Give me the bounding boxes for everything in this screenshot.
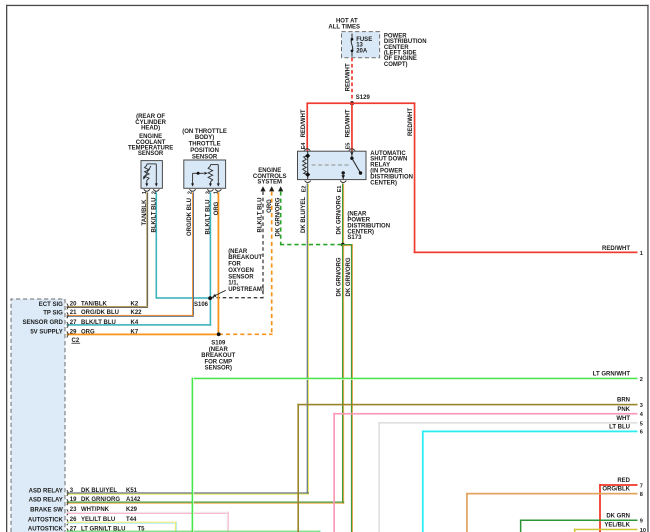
wire LT GRN/WHT to right edge (2): [192, 372, 643, 532]
PCM connector C2 label: [72, 338, 81, 344]
svg-text:BLK/LT BLU: BLK/LT BLU: [257, 198, 263, 233]
svg-text:TP SIG: TP SIG: [43, 311, 63, 317]
svg-text:AUTOSTICK: AUTOSTICK: [28, 518, 64, 524]
svg-text:2: 2: [640, 377, 643, 383]
PCM pin 20 TAN/BLK K2 (ECT SIG): [39, 301, 139, 309]
svg-text:YEL/BLK: YEL/BLK: [604, 523, 630, 529]
wire DK BLU/YEL to PCM pin 3: [67, 492, 309, 494]
fuse 13 20A: [351, 34, 373, 57]
svg-text:21: 21: [70, 310, 77, 316]
wire DK GRN to right edge (9): [520, 513, 643, 532]
ECT sensor box: [141, 161, 162, 189]
wire DK GRN/ORG to PCM pin 19 horizontal: [67, 502, 345, 504]
svg-text:ORG/DK BLU: ORG/DK BLU: [81, 310, 119, 316]
svg-text:ASD RELAY: ASD RELAY: [29, 488, 63, 494]
svg-text:BREAKOUT: BREAKOUT: [228, 255, 262, 261]
svg-text:BLK/LT BLU: BLK/LT BLU: [206, 200, 212, 235]
PCM pin 21 ORG/DK BLU K22 (TP SIG): [43, 310, 142, 318]
svg-text:FOR: FOR: [228, 262, 241, 268]
pin E2: [301, 181, 311, 193]
svg-text:E2: E2: [301, 186, 307, 193]
PCM connector box: [11, 299, 65, 532]
wire BLK/LT BLU ECT pin2 to S106: [151, 192, 210, 298]
TPS pin 3: [206, 189, 214, 194]
PCM pin 19 DK GRN/ORG A142 (ASD RELAY): [29, 497, 141, 505]
svg-text:FOR CMP: FOR CMP: [204, 359, 232, 365]
splice S106: [194, 296, 212, 308]
svg-text:(NEAR: (NEAR: [209, 347, 229, 353]
wire BLK/LT BLU dashed to engine controls: [210, 191, 263, 298]
TPS potentiometer: [208, 165, 220, 187]
wire DK GRN/ORG relay E1 down to S173: [337, 183, 345, 244]
svg-text:K2: K2: [131, 301, 139, 307]
svg-text:SENSOR: SENSOR: [138, 151, 164, 157]
wire DK BLU/YEL relay E2 down: [301, 183, 309, 494]
svg-text:4: 4: [640, 412, 644, 418]
svg-text:UPSTREAM): UPSTREAM): [228, 287, 264, 293]
ECT pin 2: [151, 189, 159, 194]
TPS pin 1: [213, 189, 221, 194]
svg-text:19: 19: [70, 497, 77, 503]
wire LT BLU to right edge (6): [422, 424, 643, 532]
svg-text:HEAD): HEAD): [141, 126, 160, 132]
svg-text:POSITION: POSITION: [190, 148, 219, 154]
svg-text:RED/WHT: RED/WHT: [345, 63, 351, 91]
svg-text:RED/WHT: RED/WHT: [345, 109, 351, 137]
wire RED/WHT down to relay E4: [301, 103, 308, 151]
wire ORG TPS pin1 to S109 to PCM pin 29: [67, 192, 221, 335]
svg-text:K7: K7: [131, 329, 139, 335]
wire RED/WHT right branch down: [408, 103, 416, 253]
ECT thermistor: [143, 166, 151, 181]
PCM pin 3 DK BLU/YEL K51 (ASD RELAY): [29, 488, 138, 496]
svg-text:DK BLU/YEL: DK BLU/YEL: [301, 197, 307, 233]
svg-text:LT GRN/WHT: LT GRN/WHT: [593, 372, 631, 378]
label HOT AT ALL TIMES: [328, 18, 360, 30]
PCM pin 29 ORG K7 (5V SUPPLY): [30, 329, 139, 337]
ECT pin 1: [142, 189, 150, 194]
svg-text:DK GRN/ORG: DK GRN/ORG: [336, 257, 342, 296]
svg-text:6: 6: [640, 430, 643, 436]
wire RED/WHT bus horizontal at S129: [306, 102, 415, 104]
pin E1: [337, 181, 346, 193]
svg-text:SENSOR): SENSOR): [205, 366, 232, 372]
TPS pin 2: [188, 189, 196, 194]
svg-text:1/1,: 1/1,: [228, 281, 238, 287]
splice S173: [341, 212, 390, 247]
svg-text:BRN: BRN: [617, 398, 630, 404]
svg-text:SENSOR GRD: SENSOR GRD: [22, 320, 63, 326]
svg-text:27: 27: [70, 320, 77, 326]
wire DK GRN/ORG dashed to engine controls: [275, 191, 342, 244]
wire TAN/BLK ECT pin1 to PCM pin 20: [67, 192, 149, 307]
svg-text:5V SUPPLY: 5V SUPPLY: [30, 330, 62, 336]
TPS sensor box: [184, 160, 226, 188]
svg-text:8: 8: [640, 492, 643, 498]
svg-text:BODY): BODY): [195, 135, 214, 141]
label engine coolant temperature sensor: [128, 114, 173, 157]
wire BRN to right edge (3): [297, 398, 643, 532]
svg-text:5: 5: [640, 421, 643, 427]
wire RED/WHT down to relay E5: [345, 103, 352, 151]
svg-text:ORG: ORG: [267, 199, 273, 213]
svg-text:DK GRN: DK GRN: [606, 513, 630, 519]
svg-text:K4: K4: [131, 320, 139, 326]
svg-text:ORG: ORG: [214, 201, 220, 215]
svg-text:SENSOR: SENSOR: [228, 274, 254, 280]
PCM pin 27 LT GRN/LT BLU T5 (AUTOSTICK): [28, 526, 145, 532]
label engine controls system: [253, 168, 287, 185]
svg-text:RED/WHT: RED/WHT: [602, 246, 630, 252]
wire WHT/PNK PCM pin 23: [67, 512, 229, 532]
svg-text:S109: S109: [211, 341, 226, 347]
wire ORG/BLK to right edge (8): [466, 487, 643, 532]
arrow to engine controls (BLK/LT BLU): [260, 186, 265, 191]
wire BLK/LT BLU TPS pin3 to S106 to PCM pin 27: [67, 192, 212, 325]
svg-text:K51: K51: [126, 488, 138, 494]
label throttle position sensor: [182, 129, 227, 161]
svg-text:S173: S173: [347, 235, 362, 241]
svg-text:S129: S129: [356, 95, 371, 101]
svg-text:(NEAR: (NEAR: [228, 249, 248, 255]
svg-text:ASD RELAY: ASD RELAY: [29, 498, 63, 504]
wire DK GRN/ORG S173 down to PCM pin 19: [336, 245, 344, 504]
ECT internal wiring: [145, 164, 158, 187]
svg-text:K22: K22: [131, 310, 143, 316]
svg-text:20: 20: [70, 301, 77, 307]
svg-text:DK GRN/ORG: DK GRN/ORG: [275, 197, 281, 236]
relay coil: [303, 151, 311, 179]
svg-text:20A: 20A: [356, 48, 368, 54]
svg-text:ALL TIMES: ALL TIMES: [328, 24, 360, 30]
label automatic shut down relay: [370, 151, 413, 187]
TPS wiper: [191, 172, 208, 187]
pin E4: [301, 142, 310, 151]
svg-text:ORG: ORG: [81, 329, 95, 335]
svg-text:ORG/BLK: ORG/BLK: [602, 487, 630, 493]
svg-text:TAN/BLK: TAN/BLK: [142, 199, 148, 226]
svg-text:ORG/DK BLU: ORG/DK BLU: [187, 198, 193, 236]
pin E5: [346, 143, 355, 151]
PCM pin 23 WHT/PNK K29 (BRAKE SW): [30, 507, 138, 515]
svg-text:PNK: PNK: [617, 407, 630, 413]
svg-text:1: 1: [640, 251, 643, 257]
svg-text:9: 9: [640, 519, 643, 525]
wire LT GRN/LT BLU PCM pin 27: [67, 531, 321, 532]
wire ORG dashed to engine controls: [219, 191, 273, 335]
svg-text:RED/WHT: RED/WHT: [408, 108, 414, 136]
arrow to engine controls (ORG): [269, 186, 274, 191]
relay switch: [341, 151, 362, 179]
wire YEL/BLK to right edge (10): [574, 523, 646, 532]
svg-text:OXYGEN: OXYGEN: [228, 268, 254, 274]
svg-text:3: 3: [640, 403, 643, 409]
fuse box (power distribution center): [342, 32, 380, 58]
svg-text:BREAKOUT: BREAKOUT: [201, 353, 235, 359]
svg-text:COMPT): COMPT): [384, 62, 408, 68]
svg-text:DK GRN/ORG: DK GRN/ORG: [81, 497, 120, 503]
wire RED/WHT to right edge (1): [414, 246, 643, 257]
svg-text:BLK/LT BLU: BLK/LT BLU: [151, 198, 157, 233]
PCM pin 27 BLK/LT BLU K4 (SENSOR GRD): [22, 320, 138, 328]
svg-text:LT BLU: LT BLU: [609, 424, 630, 430]
wire DK GRN/ORG S173 right branch down: [343, 244, 353, 532]
svg-text:RED/WHT: RED/WHT: [301, 109, 307, 137]
PCM pin 26 YEL/LT BLU T44 (AUTOSTICK): [28, 517, 137, 525]
wire YEL/LT BLU PCM pin 26: [67, 522, 178, 532]
relay U1 automatic shut down relay box: [298, 151, 367, 179]
svg-text:AUTOSTICK: AUTOSTICK: [28, 527, 64, 532]
svg-text:DK BLU/YEL: DK BLU/YEL: [81, 488, 117, 494]
splice S109: [201, 332, 235, 371]
wire PNK to right edge (4): [333, 407, 644, 532]
svg-text:DK GRN/ORG: DK GRN/ORG: [346, 257, 352, 296]
relay internal dashed link: [312, 164, 349, 166]
svg-text:E5: E5: [346, 143, 352, 150]
svg-text:DK GRN/ORG: DK GRN/ORG: [337, 195, 343, 234]
arrow to engine controls (DK GRN/ORG): [278, 186, 283, 191]
svg-text:RED: RED: [617, 478, 630, 484]
splice S129: [350, 95, 370, 105]
svg-text:TAN/BLK: TAN/BLK: [81, 301, 108, 307]
svg-text:29: 29: [70, 329, 77, 335]
svg-text:BLK/LT BLU: BLK/LT BLU: [81, 320, 116, 326]
svg-text:BRAKE SW: BRAKE SW: [30, 508, 63, 514]
wire RED to right edge (7): [599, 478, 643, 532]
svg-text:WHT: WHT: [616, 416, 630, 422]
svg-text:CENTER): CENTER): [370, 180, 397, 186]
wire ORG/DK BLU TPS pin2 to PCM pin 21: [67, 192, 194, 316]
svg-text:E4: E4: [301, 142, 307, 150]
label power distribution center: [384, 34, 427, 68]
svg-text:A142: A142: [126, 497, 141, 503]
wire RED/WHT fuse to S129 (dashed): [345, 58, 352, 103]
svg-text:S106: S106: [194, 302, 209, 308]
svg-text:7: 7: [640, 483, 643, 489]
svg-text:10: 10: [640, 528, 646, 532]
label near breakout for oxygen sensor: [212, 249, 264, 297]
wire WHT to right edge (5): [378, 416, 643, 532]
svg-text:ECT SIG: ECT SIG: [39, 302, 63, 308]
svg-text:THROTTLE: THROTTLE: [189, 142, 221, 148]
svg-text:SYSTEM: SYSTEM: [257, 180, 282, 186]
